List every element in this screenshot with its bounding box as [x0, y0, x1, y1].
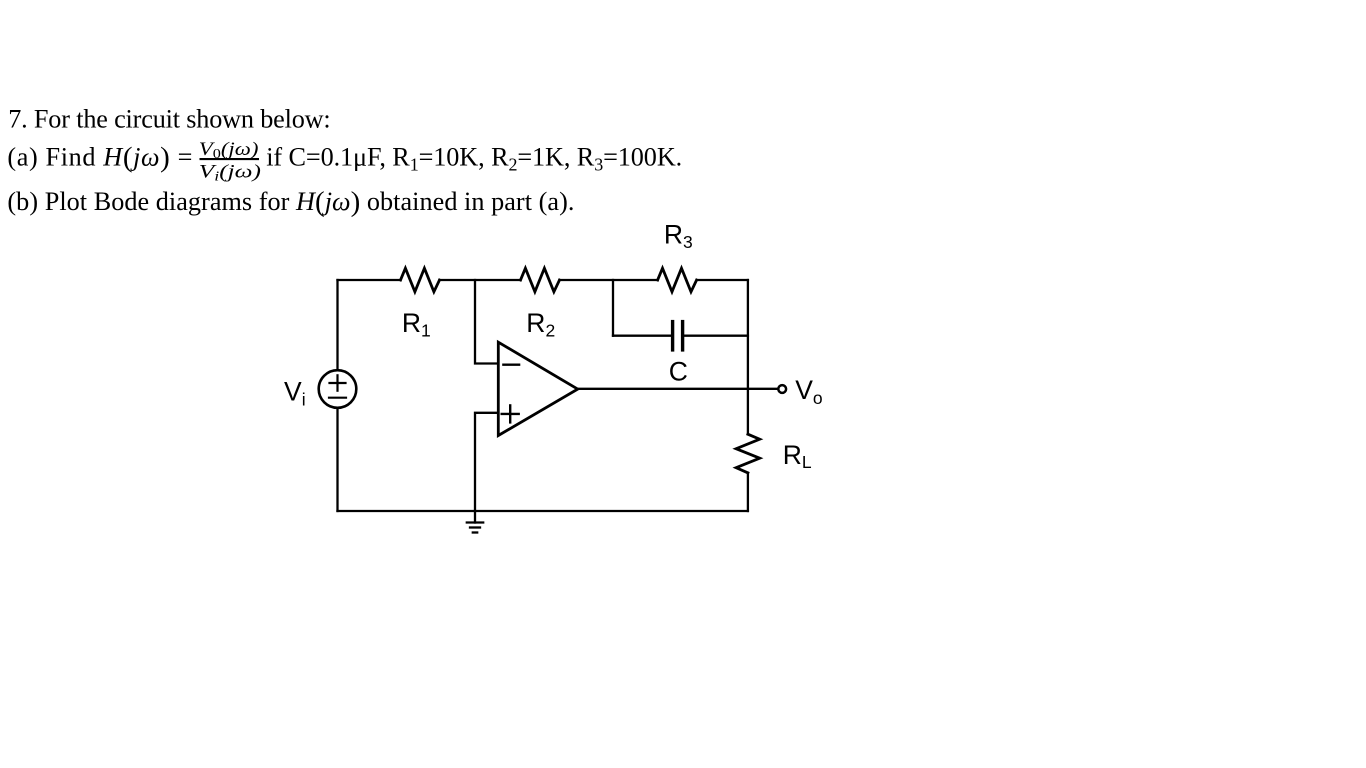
svg-text:C: C — [669, 357, 688, 387]
wire right vertical top — [747, 280, 749, 434]
output terminal node Vo — [778, 385, 786, 393]
wire R1 to node A — [440, 279, 521, 281]
wire left vertical upper — [336, 280, 338, 370]
svg-text:if C=0.1μF, R1=10K, R2=1K, R3=: if C=0.1μF, R1=10K, R2=1K, R3=100K. — [266, 143, 682, 175]
ground — [467, 523, 483, 533]
wire non-inverting input to ground rail — [475, 413, 498, 511]
wire capacitor right — [684, 335, 748, 337]
wire R3 to top-right corner — [697, 279, 748, 281]
resistor R2 — [521, 268, 560, 292]
voltage source Vi — [319, 370, 357, 408]
wire op-amp output to terminal — [578, 388, 778, 390]
wire node A down to inverting input — [475, 280, 498, 364]
op-amp U1 — [498, 342, 577, 435]
op-amp minus input symbol — [503, 364, 519, 366]
wire node B down to capacitor rail — [612, 280, 614, 336]
minus sign in source — [329, 397, 346, 399]
wire capacitor left — [613, 335, 671, 337]
capacitor C — [673, 322, 683, 350]
wire R2 to node B — [560, 279, 658, 281]
svg-text:(a) Find H(jω) =: (a) Find H(jω) = — [7, 142, 192, 174]
ground stub — [474, 511, 476, 523]
resistor RL — [736, 434, 760, 473]
wire bottom horizontal — [338, 510, 748, 512]
wire right vertical bottom — [747, 473, 749, 511]
wire top-left horizontal — [338, 279, 401, 281]
svg-text:Vi(jω): Vi(jω) — [199, 161, 261, 184]
plus sign in source — [330, 375, 346, 390]
resistor R3 — [658, 268, 697, 292]
svg-text:7. For the circuit shown below: 7. For the circuit shown below: — [8, 105, 331, 134]
resistor R1 — [401, 268, 440, 292]
fraction bar — [200, 158, 260, 160]
op-amp plus input symbol — [502, 405, 519, 422]
svg-text:(b) Plot Bode diagrams for H(j: (b) Plot Bode diagrams for H(jω) obtaine… — [7, 186, 574, 218]
wire left vertical lower — [336, 408, 338, 511]
